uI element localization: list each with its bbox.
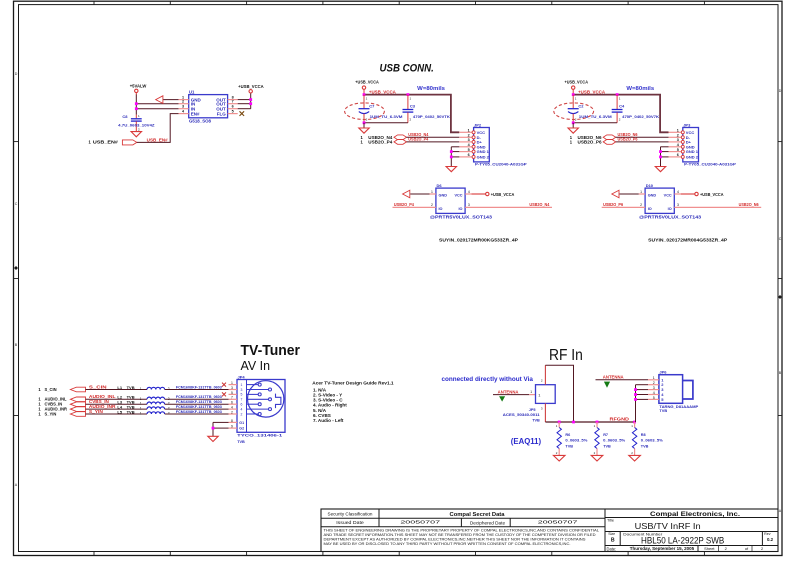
svg-text:JP5: JP5	[529, 408, 536, 412]
wire USB2O_N6 at D10 pin3	[674, 206, 761, 208]
svg-text:2: 2	[468, 134, 470, 138]
connector JP2	[459, 122, 527, 166]
highlight ellipse (dashed)	[554, 103, 594, 120]
inductor L4	[117, 404, 169, 410]
wire USB2O_P6 to JP3 pin3	[616, 141, 669, 143]
junction	[135, 102, 138, 105]
svg-text:Deciphered Date: Deciphered Date	[470, 520, 506, 525]
ground	[208, 436, 218, 441]
off-page arrow	[403, 190, 410, 198]
esd diode D10	[639, 183, 681, 213]
svg-text:G2: G2	[239, 427, 244, 431]
capacitor C8	[118, 114, 155, 132]
wire +5VALW rail	[135, 95, 137, 115]
wire to U1 pin2	[136, 103, 178, 105]
svg-text:3: 3	[677, 138, 679, 142]
resistor R8	[631, 422, 663, 455]
svg-text:USB2O_N6: USB2O_N6	[739, 202, 760, 207]
svg-text:W=80mils: W=80mils	[417, 86, 445, 92]
svg-text:USB2O_P6: USB2O_P6	[578, 139, 603, 144]
junction	[407, 93, 410, 96]
antenna symbol	[604, 382, 609, 387]
svg-text:B: B	[611, 537, 615, 543]
svg-text:B: B	[779, 371, 782, 375]
svg-text:EN#: EN#	[191, 111, 200, 116]
svg-text:1: 1	[138, 114, 140, 118]
svg-text:470P_0402_50V7K: 470P_0402_50V7K	[622, 114, 659, 119]
ground	[553, 455, 565, 461]
ground	[446, 167, 456, 172]
svg-text:C3: C3	[410, 104, 416, 109]
junction	[634, 398, 637, 401]
port USB2O_N6	[570, 135, 616, 140]
svg-text:1: 1	[631, 424, 633, 428]
svg-text:1: 1	[556, 424, 558, 428]
svg-text:2: 2	[677, 134, 679, 138]
wire VCC rail W=80mils	[364, 95, 459, 133]
svg-text:3: 3	[231, 386, 233, 390]
svg-text:DEPARTMENT EXCEPT AS AUTHORIZE: DEPARTMENT EXCEPT AS AUTHORIZED BY COMPA…	[324, 538, 587, 542]
svg-text:W=80mils: W=80mils	[626, 86, 654, 92]
svg-text:Thursday, September 15, 2005: Thursday, September 15, 2005	[630, 546, 695, 551]
svg-text:TVB: TVB	[565, 444, 573, 448]
svg-text:1: 1	[366, 96, 368, 100]
border zone ticks top	[94, 1, 704, 4]
svg-text:1: 1	[468, 129, 470, 133]
border zone ticks left	[14, 142, 19, 416]
title block text left	[328, 512, 580, 526]
svg-text:R7: R7	[603, 433, 608, 437]
svg-text:+USB_VCCA: +USB_VCCA	[491, 192, 515, 197]
svg-text:R8: R8	[641, 433, 646, 437]
junction	[633, 421, 636, 424]
svg-text:1: 1	[361, 139, 364, 144]
svg-text:0_0603_5%: 0_0603_5%	[641, 439, 664, 443]
svg-text:3: 3	[677, 203, 679, 207]
svg-text:B: B	[15, 343, 18, 347]
svg-text:2: 2	[138, 128, 140, 132]
svg-text:GND 1: GND 1	[686, 149, 699, 154]
wire D6 pin1 to off-page arrow	[410, 193, 429, 195]
svg-text:+USB_VCCA: +USB_VCCA	[238, 84, 264, 89]
inductor L2	[117, 395, 169, 401]
svg-text:1: 1	[241, 383, 243, 387]
svg-text:ANTENNA: ANTENNA	[603, 374, 624, 379]
junction	[616, 93, 619, 96]
highlight ellipse (dashed)	[345, 103, 385, 120]
svg-text:1: 1	[677, 129, 679, 133]
off-page arrow	[612, 190, 619, 198]
wire L3 to JP4	[165, 403, 229, 405]
svg-text:VCC: VCC	[664, 193, 672, 197]
junction	[450, 150, 453, 153]
wire L5 to JP4	[165, 413, 229, 415]
wire RFGND rail	[545, 421, 635, 423]
svg-text:A: A	[15, 483, 18, 487]
port S_YIN	[38, 411, 85, 416]
svg-text:3: 3	[182, 105, 184, 109]
no-connect X on U1 pin5	[240, 111, 245, 116]
svg-text:0_0603_5%: 0_0603_5%	[565, 439, 588, 443]
antenna symbol	[500, 397, 505, 401]
capacitor C3	[403, 95, 451, 123]
svg-text:1: 1	[231, 381, 233, 385]
svg-text:5: 5	[468, 148, 470, 152]
pin stub JP5 pin1	[529, 394, 535, 396]
wire JP6 pins 2-5	[636, 385, 649, 422]
junction	[634, 393, 637, 396]
svg-text:0.2: 0.2	[767, 537, 774, 542]
svg-text:IO: IO	[668, 207, 672, 211]
resistor R7	[594, 422, 626, 455]
svg-text:HBL50 LA-2922P SWB: HBL50 LA-2922P SWB	[641, 534, 724, 545]
wire S_YIN to L5	[86, 413, 148, 415]
connector JP6	[648, 369, 699, 413]
svg-text:1: 1	[431, 190, 433, 194]
svg-text:5: 5	[653, 396, 655, 400]
svg-text:GND 2: GND 2	[477, 155, 490, 160]
svg-text:USB2O_P4: USB2O_P4	[408, 137, 429, 142]
svg-text:1: 1	[530, 390, 532, 394]
svg-text:IO: IO	[439, 207, 443, 211]
wire D10 pin1 to off-page arrow	[619, 193, 638, 195]
inductor L1	[117, 385, 169, 391]
power +USB_VCCA (JP2 section)	[355, 80, 379, 95]
svg-text:JP3: JP3	[683, 122, 691, 127]
wire to ground	[363, 123, 365, 128]
connector JP3	[669, 122, 737, 166]
svg-text:FLG: FLG	[217, 111, 226, 116]
off-page arrow to U1 pin1	[156, 96, 179, 104]
svg-text:USB/TV InRF In: USB/TV InRF In	[635, 522, 701, 531]
svg-text:3: 3	[653, 386, 655, 390]
svg-text:TVB: TVB	[659, 408, 667, 413]
svg-text:L5: L5	[117, 409, 122, 414]
wire U1 outputs to +USB_VCCA rail	[238, 93, 251, 109]
wire JP2 grounds	[451, 147, 459, 167]
port S_CIN	[38, 387, 85, 392]
svg-text:USB2O_N4: USB2O_N4	[529, 202, 550, 207]
svg-text:USB2O_P4: USB2O_P4	[394, 202, 415, 207]
svg-text:5: 5	[231, 391, 233, 395]
svg-text:2: 2	[410, 117, 412, 121]
wire VCC rail W=80mils	[573, 95, 668, 133]
svg-text:THIS SHEET OF ENGINEERING DRAW: THIS SHEET OF ENGINEERING DRAWING IS THE…	[324, 528, 600, 532]
svg-text:D6: D6	[437, 183, 443, 188]
wire JP5 pin3 down	[544, 403, 546, 422]
border zone diamond marks	[14, 266, 18, 270]
svg-text:20050707: 20050707	[400, 519, 441, 524]
ground	[131, 132, 141, 137]
svg-text:5: 5	[677, 148, 679, 152]
svg-text:2: 2	[575, 117, 577, 121]
svg-text:FCM1608KF-131TTB_0603: FCM1608KF-131TTB_0603	[176, 405, 222, 409]
svg-text:1: 1	[140, 387, 142, 391]
wire L2 to JP4	[165, 398, 229, 400]
svg-text:D10: D10	[646, 183, 654, 188]
junction	[212, 427, 215, 430]
svg-text:+USB_VCCA: +USB_VCCA	[369, 89, 396, 94]
svg-text:2: 2	[761, 546, 764, 551]
svg-text:FCM1608KF-131TTB_0603: FCM1608KF-131TTB_0603	[176, 395, 222, 399]
ground	[359, 128, 369, 133]
svg-text:ANTENNA: ANTENNA	[498, 390, 519, 395]
wire AUDIO_INR to L4	[86, 408, 148, 410]
note Acer TV-Tuner design guide	[312, 380, 394, 423]
svg-text:USB CONN.: USB CONN.	[380, 62, 434, 74]
svg-text:TV-Tuner: TV-Tuner	[241, 343, 301, 359]
wire USB2O_N4 to JP2 pin2	[407, 136, 460, 138]
svg-text:AV In: AV In	[241, 358, 271, 373]
svg-text:Security Classification: Security Classification	[328, 512, 374, 517]
junction	[450, 156, 453, 159]
wire top loop	[545, 365, 573, 422]
junction	[659, 156, 662, 159]
svg-text:TVB: TVB	[532, 418, 540, 422]
svg-text:USB2O_P4: USB2O_P4	[368, 139, 393, 144]
svg-text:USB2O_P6: USB2O_P6	[603, 202, 624, 207]
svg-text:1: 1	[653, 376, 655, 380]
svg-text:RFGND: RFGND	[610, 417, 630, 422]
svg-text:470P_0402_50VTK: 470P_0402_50VTK	[413, 114, 450, 119]
svg-text:+USB_VCCA: +USB_VCCA	[355, 80, 379, 85]
svg-text:2: 2	[640, 203, 642, 207]
svg-text:2: 2	[366, 117, 368, 121]
svg-text:1: 1	[640, 190, 642, 194]
connector JP4 (mini-DIN)	[229, 374, 286, 444]
svg-text:4: 4	[653, 391, 655, 395]
svg-text:FCM1608KF-131TTB_0603: FCM1608KF-131TTB_0603	[176, 400, 222, 404]
svg-text:connected directly without Via: connected directly without Via	[442, 376, 534, 383]
svg-text:D: D	[779, 89, 782, 93]
svg-text:4: 4	[468, 190, 470, 194]
svg-text:@PRTR5V0LUX_SOT143: @PRTR5V0LUX_SOT143	[430, 214, 493, 219]
svg-text:1: 1	[140, 412, 142, 416]
svg-text:2: 2	[541, 379, 543, 383]
power +USB_VCCA (U1)	[238, 84, 264, 93]
svg-text:6: 6	[468, 153, 470, 157]
wire USB2O_P6 at D10 pin2	[602, 206, 645, 208]
svg-text:GND: GND	[439, 193, 448, 197]
junction	[596, 421, 599, 424]
wire cap commons	[573, 122, 617, 124]
wire JP3 grounds	[661, 147, 669, 167]
svg-text:1: 1	[38, 387, 41, 392]
IC U1 G518_SO8	[179, 90, 238, 124]
wire ANTENNA to JP5 pin1	[493, 394, 529, 396]
svg-text:Issued Date: Issued Date	[336, 520, 364, 525]
svg-text:A: A	[779, 509, 782, 513]
svg-text:1: 1	[140, 402, 142, 406]
svg-text:1: 1	[140, 397, 142, 401]
svg-text:2: 2	[653, 381, 655, 385]
svg-text:(EAQ11): (EAQ11)	[511, 436, 541, 446]
wire AUDIO_INL to L2	[86, 398, 148, 400]
svg-text:2: 2	[182, 100, 184, 104]
svg-text:+USB_VCCA: +USB_VCCA	[565, 80, 589, 85]
title block text right	[607, 511, 774, 552]
no-connect X JP4 pin5	[222, 392, 226, 396]
svg-text:S_YIN: S_YIN	[89, 409, 103, 414]
junction	[659, 150, 662, 153]
svg-text:S_CIN: S_CIN	[45, 387, 57, 392]
svg-text:5: 5	[241, 393, 243, 397]
rf switch JP5	[536, 379, 556, 411]
svg-text:1: 1	[38, 411, 41, 416]
svg-text:2: 2	[631, 451, 633, 455]
svg-text:TVB: TVB	[127, 409, 135, 414]
svg-text:SUYIN_020172MR00KG533ZR_4P: SUYIN_020172MR00KG533ZR_4P	[439, 237, 519, 243]
svg-text:P-TY05_CU2040-A031GP: P-TY05_CU2040-A031GP	[684, 162, 736, 167]
svg-text:Size: Size	[608, 532, 615, 536]
svg-text:of: of	[745, 546, 749, 551]
junction	[634, 388, 637, 391]
capacitor C7 (polarized)	[359, 95, 404, 123]
svg-text:U1: U1	[189, 90, 195, 95]
svg-text:1: 1	[575, 96, 577, 100]
port AUDIO_INL	[38, 397, 85, 402]
svg-text:1: 1	[410, 96, 412, 100]
wire USB2O_N4 at D6 pin3	[465, 206, 552, 208]
junction	[572, 93, 575, 96]
svg-text:5: 5	[232, 110, 234, 114]
svg-text:3: 3	[241, 388, 243, 392]
svg-text:TVB: TVB	[603, 444, 611, 448]
svg-text:4: 4	[231, 406, 233, 410]
port CVBS_IN	[38, 402, 85, 407]
wire USB2O_N6 to JP3 pin2	[616, 136, 669, 138]
power +USB_VCCA at D10 pin4	[681, 192, 724, 197]
svg-text:C: C	[15, 202, 18, 206]
svg-text:9: 9	[231, 425, 233, 429]
svg-text:TVB: TVB	[237, 440, 245, 444]
svg-text:TVB: TVB	[127, 385, 135, 390]
svg-text:TVB: TVB	[641, 444, 649, 448]
junction	[558, 421, 561, 424]
svg-text:7: 7	[232, 100, 234, 104]
svg-text:+5VALW: +5VALW	[130, 83, 147, 88]
junction	[363, 121, 366, 124]
svg-text:Compal Secret Data: Compal Secret Data	[450, 512, 505, 518]
svg-text:0_0603_5%: 0_0603_5%	[603, 439, 626, 443]
wire JP4 shield grounds	[213, 422, 229, 436]
svg-text:6: 6	[677, 153, 679, 157]
svg-text:Date:: Date:	[607, 546, 617, 551]
svg-text:7. Audio - Left: 7. Audio - Left	[313, 418, 344, 423]
junction	[572, 421, 575, 424]
wire L1 to JP4	[165, 389, 229, 391]
border zone letters right	[779, 89, 782, 513]
esd diode D6	[430, 183, 472, 213]
svg-text:3: 3	[468, 138, 470, 142]
title block disclaimer	[324, 528, 600, 546]
svg-text:S_YIN: S_YIN	[45, 411, 57, 416]
svg-text:L1: L1	[117, 385, 122, 390]
svg-text:2: 2	[431, 203, 433, 207]
svg-text:USB_EN#: USB_EN#	[93, 140, 119, 145]
svg-text:C8: C8	[122, 114, 128, 119]
wire ANTENNA to JP6 pin1	[596, 379, 649, 381]
wire USB2O_P4 at D6 pin2	[393, 206, 436, 208]
svg-text:G1: G1	[239, 421, 244, 425]
svg-text:MAY BE USED BY OR DISCLOSED TO: MAY BE USED BY OR DISCLOSED TO ANY THIRD…	[324, 542, 571, 546]
svg-text:+USB_VCCA: +USB_VCCA	[700, 192, 724, 197]
svg-text:4: 4	[677, 190, 679, 194]
wire cap commons	[364, 122, 408, 124]
svg-text:Rev: Rev	[764, 532, 771, 536]
svg-text:Acer TV-Tuner Design Guide Rev: Acer TV-Tuner Design Guide Rev1.1	[312, 380, 394, 385]
title block frame	[321, 509, 778, 552]
power +USB_VCCA (JP3 section)	[565, 80, 589, 95]
port AUDIO_INR	[38, 407, 85, 412]
svg-text:R6: R6	[565, 433, 570, 437]
wire L4 to JP4	[165, 408, 229, 410]
svg-text:GND 2: GND 2	[686, 155, 699, 160]
port USB_EN#	[89, 140, 137, 145]
svg-text:G518_SO8: G518_SO8	[189, 118, 212, 123]
svg-text:USB2O_P6: USB2O_P6	[618, 137, 639, 142]
inductor L3	[117, 400, 169, 406]
svg-text:4.7U_0603_10V4Z: 4.7U_0603_10V4Z	[118, 122, 155, 127]
svg-text:1: 1	[570, 139, 573, 144]
svg-text:Sheet: Sheet	[704, 546, 715, 551]
svg-text:TYCO_131406-1: TYCO_131406-1	[237, 433, 282, 437]
power +USB_VCCA at D6 pin4	[472, 192, 515, 197]
svg-text:P-TY05_CU2040-A031GP: P-TY05_CU2040-A031GP	[475, 162, 527, 167]
capacitor C4	[612, 95, 660, 123]
svg-text:FCM1608KF-131TTB_0603: FCM1608KF-131TTB_0603	[176, 385, 222, 389]
border zone ticks bottom	[94, 552, 704, 556]
svg-text:1: 1	[594, 424, 596, 428]
label JP5	[503, 408, 540, 422]
wire to U1 pin3	[136, 108, 178, 110]
svg-text:2: 2	[725, 546, 728, 551]
svg-text:IO: IO	[458, 207, 462, 211]
junction	[249, 98, 252, 101]
border zone letters left	[15, 72, 18, 487]
svg-text:C: C	[779, 237, 782, 241]
svg-text:6: 6	[241, 403, 243, 407]
svg-text:7: 7	[241, 398, 243, 402]
svg-text:Compal Electronics, Inc.: Compal Electronics, Inc.	[650, 511, 740, 518]
svg-text:D: D	[15, 72, 18, 76]
wire to ground	[572, 123, 574, 128]
ground	[629, 455, 641, 461]
resistor R6	[556, 422, 588, 455]
power +5VALW	[130, 83, 147, 94]
svg-text:AND TRADE SECRET INFORMATION.T: AND TRADE SECRET INFORMATION.THIS SHEET …	[324, 533, 596, 537]
border zone ticks right	[778, 142, 782, 416]
svg-text:GND: GND	[648, 193, 657, 197]
svg-text:S_CIN: S_CIN	[89, 384, 107, 389]
svg-text:RF In: RF In	[549, 347, 583, 364]
svg-text:2: 2	[594, 451, 596, 455]
wire USB2O_P4 to JP2 pin3	[407, 141, 460, 143]
junction	[135, 107, 138, 110]
svg-text:Title: Title	[607, 519, 614, 523]
svg-text:6: 6	[231, 401, 233, 405]
svg-text:USB_EN#: USB_EN#	[147, 137, 169, 142]
wire CVBS_IN to L3	[86, 403, 148, 405]
svg-text:IO: IO	[648, 207, 652, 211]
svg-text:ACES_50340-0011: ACES_50340-0011	[503, 413, 540, 417]
ground	[568, 128, 578, 133]
wire JP5 pin2 up	[544, 365, 546, 385]
svg-text:4: 4	[241, 407, 243, 411]
svg-text:FCM1608KF-131TTB_0603: FCM1608KF-131TTB_0603	[176, 410, 222, 414]
svg-text:JP4: JP4	[238, 374, 246, 379]
svg-text:6: 6	[232, 105, 234, 109]
